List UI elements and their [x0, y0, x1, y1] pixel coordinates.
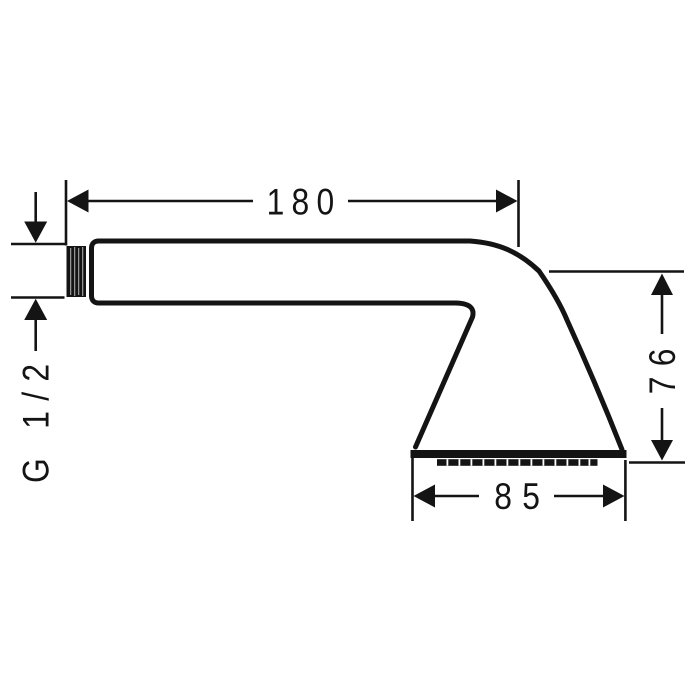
dimension 85: right extension line: [624, 460, 627, 521]
hand shower inner outline (handle bottom + cone left edge): [99, 303, 473, 447]
svg-text:180: 180: [267, 182, 342, 223]
dimension 180: left extension line: [65, 180, 68, 246]
dimension 85: left arrow: [414, 485, 436, 508]
dimension 85: line left segment: [433, 495, 479, 498]
thread G1/2 (hatched connector): [67, 246, 87, 297]
dimension 180: left arrow: [67, 190, 89, 213]
dimension 180: line right segment: [348, 200, 498, 203]
dimension 76: bottom extension line: [629, 461, 685, 464]
svg-text:G 1/2: G 1/2: [16, 354, 57, 483]
spray face bottom plate: [411, 450, 627, 458]
dimension G 1/2: top extension line: [11, 243, 65, 246]
dimension 180: right extension line: [517, 180, 520, 247]
dimension G 1/2: upper leader line: [34, 192, 37, 223]
dimension G 1/2: up arrow: [24, 299, 47, 320]
dimension 85: left extension line: [411, 457, 414, 521]
svg-text:85: 85: [494, 477, 550, 518]
dimension 76: line lower segment: [661, 408, 664, 442]
dimension 85: line right segment: [554, 495, 605, 498]
handle left end cap: [92, 241, 100, 303]
spray nozzles dashed strip: [437, 459, 598, 466]
svg-text:76: 76: [643, 338, 684, 394]
dimension 180: right arrow: [496, 190, 518, 213]
dimension G 1/2: bottom extension line: [11, 296, 65, 299]
hand shower outer outline (handle top + sweeping curve to head right side): [99, 241, 622, 450]
dimension G 1/2: lower leader line: [34, 320, 37, 352]
dimension 76: top extension line: [549, 270, 684, 273]
dimension 76: line upper segment: [661, 294, 664, 334]
dimension G 1/2: down arrow: [24, 222, 47, 243]
dimension 76: down arrow: [651, 440, 673, 461]
dimension 76: up arrow: [651, 274, 673, 296]
dimension 180: line left segment: [86, 200, 253, 203]
dimension 85: right arrow: [603, 485, 625, 508]
